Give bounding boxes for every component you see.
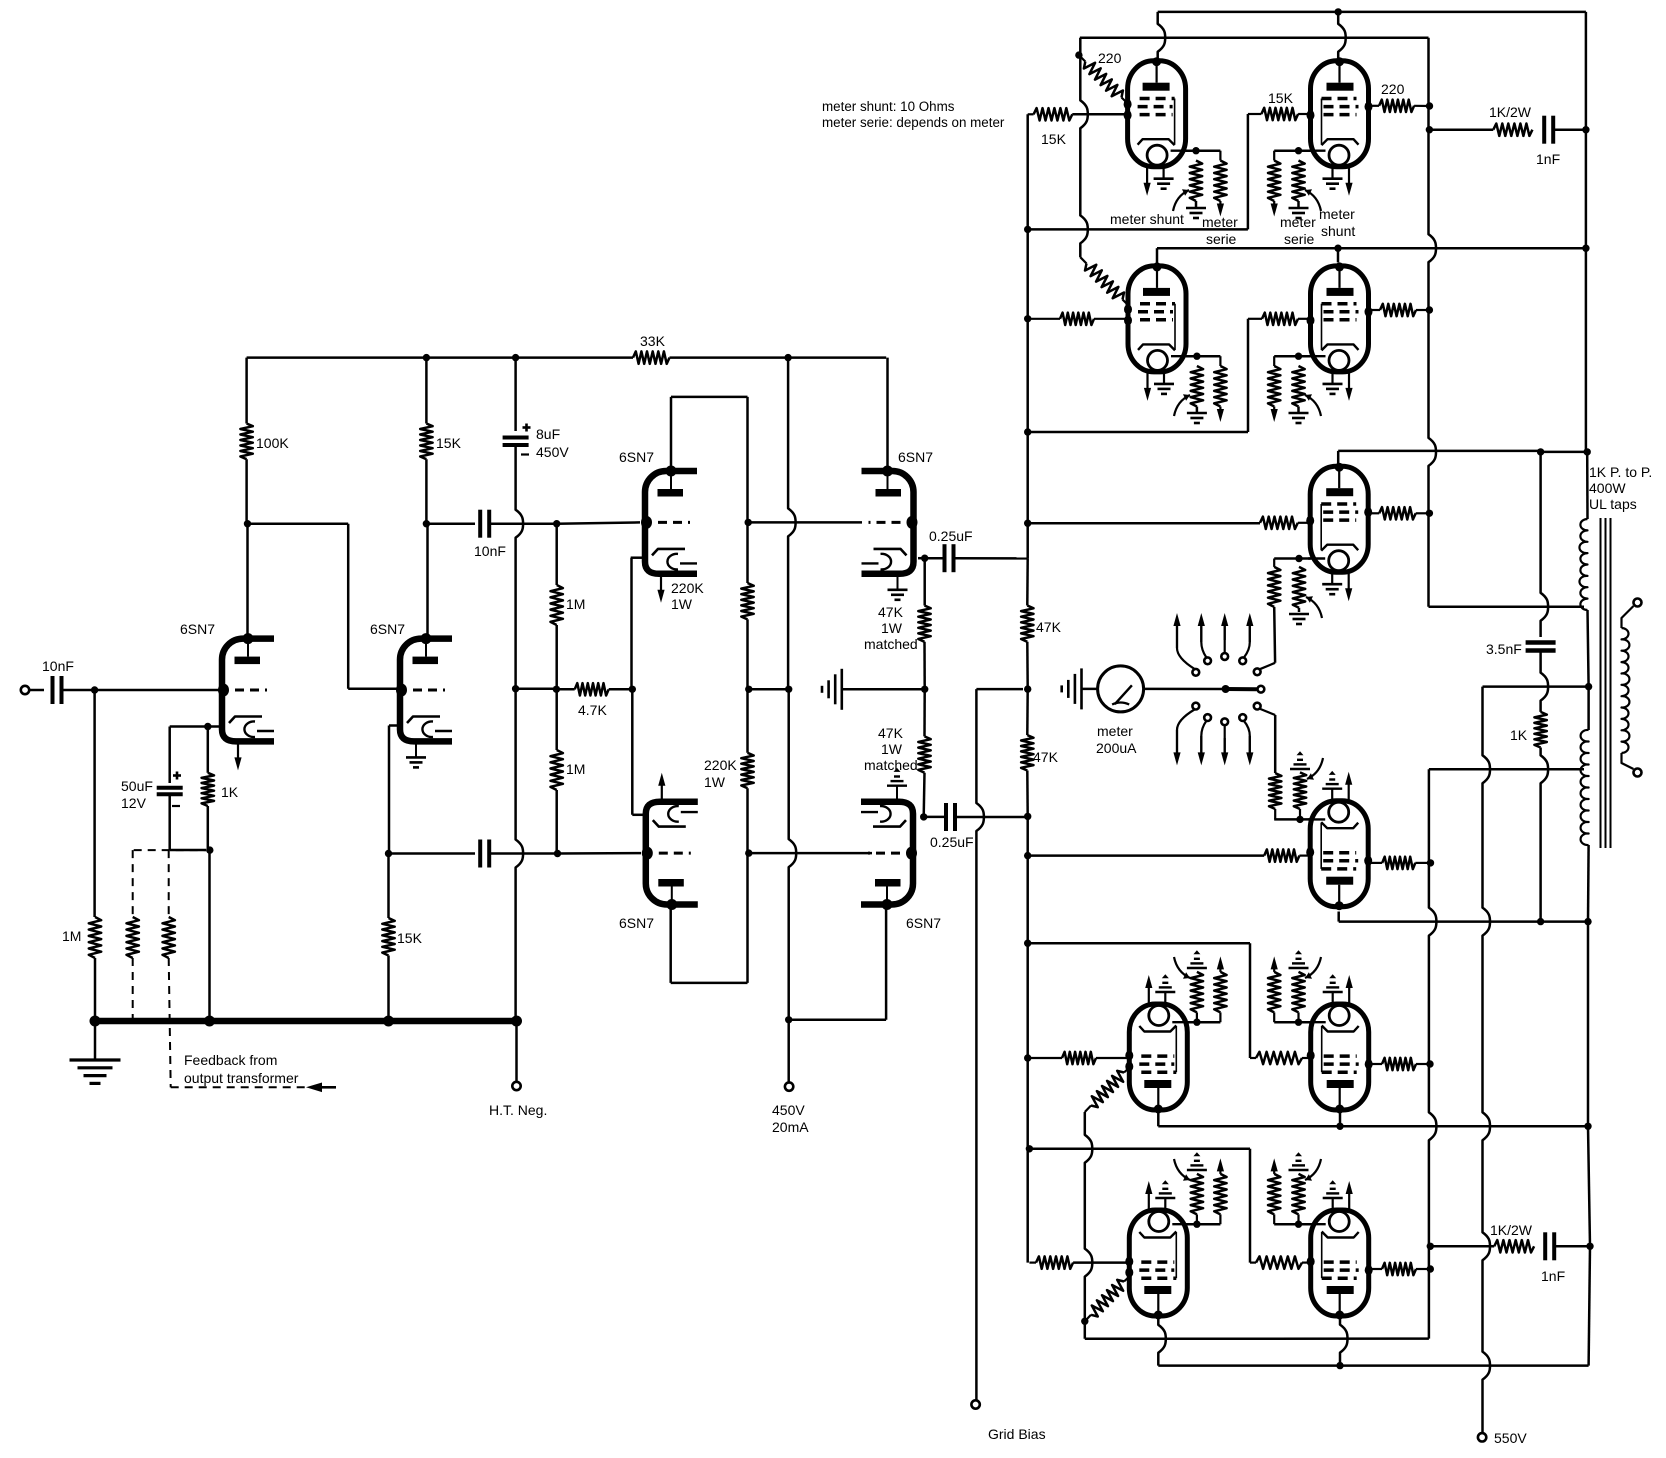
resistor R57 meter shunt V16	[1292, 1174, 1304, 1215]
resistor R32 meter serie V10	[1268, 366, 1280, 407]
node lower drive top	[1024, 813, 1031, 820]
wire V8 cathode out	[1274, 149, 1293, 152]
resistor R38 grid V12	[1264, 849, 1299, 861]
wire R17 leads	[1026, 689, 1029, 735]
earth reference (sideways ground)	[840, 669, 843, 710]
wire R6 leads	[387, 854, 390, 919]
switch lead d3	[1224, 725, 1226, 753]
switch lead d1	[1177, 710, 1195, 754]
wire primary mid	[1588, 610, 1589, 687]
switch contact u3	[1221, 653, 1228, 660]
wire V10 cathode out	[1274, 355, 1310, 358]
wire V1 plate riser	[246, 524, 249, 637]
svg-text:1M: 1M	[566, 596, 585, 612]
node drive row6b	[1026, 1145, 1033, 1152]
capacitor C4 10nF interstage	[478, 510, 482, 538]
node zobel bottom junction	[1537, 918, 1544, 925]
transformer T1 primary upper coil	[1579, 519, 1587, 610]
node primary top junction	[1584, 448, 1591, 455]
node rail B' / zobel2	[1427, 1243, 1434, 1250]
node line1 / V8 riser	[1335, 8, 1342, 15]
wire secondary top lead	[1622, 606, 1634, 628]
node B+ / R7	[423, 354, 430, 361]
wire zobel2 from rail B2 (hop 550V riser)	[1430, 1245, 1494, 1248]
svg-text:meter: meter	[1202, 214, 1238, 230]
wire R2 top lead	[207, 727, 210, 773]
tube V13 output (row5 left)	[1129, 1004, 1187, 1110]
wire lower drive rail	[1026, 816, 1029, 1262]
wire V12 cathode out	[1274, 818, 1310, 821]
node zobel top junction	[1537, 448, 1544, 455]
rotary switch S1 pivot	[1222, 685, 1230, 693]
dashed feedback line to output	[171, 1086, 336, 1088]
svg-text:15K: 15K	[397, 930, 423, 946]
wire cathode tie down to V5	[631, 689, 634, 815]
resistor R24 meter serie V8	[1268, 161, 1280, 202]
pot arrow meter shunt V9	[1174, 395, 1190, 416]
node bus left	[90, 1016, 101, 1027]
tube V16 output (row6 right)	[1311, 1210, 1369, 1316]
switch contact d1	[1192, 703, 1199, 710]
terminal H.T. Neg.	[512, 1082, 520, 1090]
resistor R33 meter shunt V10	[1292, 366, 1304, 407]
node V12 cathode / shunt	[1296, 816, 1303, 823]
wire R11 leads	[555, 689, 558, 750]
node chain / upper grid wire	[745, 519, 752, 526]
node primary V12 junction	[1584, 918, 1591, 925]
svg-text:H.T. Neg.: H.T. Neg.	[489, 1102, 547, 1118]
inverted ground meter shunt V16	[1289, 1169, 1309, 1171]
resistor R3 100K plate load V1	[240, 424, 252, 460]
capacitor C6 0.25uF upper coupling	[943, 544, 947, 572]
wire row5 plates	[1157, 1110, 1160, 1126]
tube V5 6SN7 splitter lower-left	[646, 802, 698, 905]
svg-text:47K: 47K	[1036, 619, 1062, 635]
wire zobel3 top	[1541, 452, 1549, 637]
wire V2 plate riser	[426, 524, 429, 637]
svg-text:Feedback from: Feedback from	[184, 1052, 277, 1068]
resistor R19 15K grid V7	[1034, 108, 1073, 120]
wire R30 to ground	[1196, 407, 1199, 413]
arrow meter serie V8 (to switch)	[1273, 201, 1275, 206]
wire zobel1 to plate line	[1553, 128, 1586, 131]
pot arrow meter shunt V14	[1305, 957, 1321, 978]
wire long riser lower half	[789, 689, 797, 1020]
switch lead d4	[1244, 721, 1250, 753]
ground meter shunt V11	[1289, 613, 1309, 616]
node rail B' / 220 V12	[1427, 859, 1434, 866]
wire lower grid wire to V6 (hop)	[749, 852, 872, 855]
node drive row5b	[1024, 940, 1031, 947]
wire V9 cathode out	[1186, 355, 1220, 358]
resistor R10 4.7K tail	[575, 683, 609, 695]
wire HT terminal lead	[515, 1024, 518, 1082]
node grid chain top	[553, 520, 560, 527]
pot arrow meter shunt V7	[1173, 190, 1189, 211]
svg-text:1W: 1W	[671, 596, 693, 612]
svg-text:6SN7: 6SN7	[619, 915, 654, 931]
polarity - mark C3	[521, 453, 529, 455]
resistor R43 grid V13	[1062, 1052, 1096, 1064]
resistor R27 grid V9	[1060, 313, 1094, 325]
wire V4 plate riser	[886, 358, 889, 471]
node cathode tie V3/V5	[629, 686, 636, 693]
resistor R36 meter shunt V11	[1293, 567, 1305, 608]
wire V10 plate riser	[1337, 248, 1340, 262]
resistor R2 1K cathode	[202, 773, 214, 806]
pot arrow meter shunt V16	[1305, 1159, 1321, 1180]
wire HT node to 4.7K node	[516, 687, 557, 690]
node rail B / 220 V11	[1426, 510, 1433, 517]
arrow meter serie V7 (to switch)	[1219, 201, 1221, 206]
node rail B / 220 V10	[1426, 306, 1433, 313]
wire C2 to junction	[168, 795, 171, 850]
wire 450V terminal lead	[787, 1020, 790, 1082]
input terminal	[21, 686, 29, 694]
switch lead d5 (to V12 serie)	[1260, 709, 1276, 715]
resistor R58 1K/2W upper	[1493, 124, 1532, 136]
wire V15 cathode out	[1187, 1223, 1221, 1226]
node lower grid junction	[554, 850, 561, 857]
node bus 15K	[383, 1016, 394, 1027]
wire UL tap upper (from rail B)	[1429, 606, 1585, 609]
transformer T1 secondary coil	[1622, 628, 1630, 753]
node V1 plate/coupling junction	[244, 520, 251, 527]
node grid bias mid	[1024, 685, 1031, 692]
wire R15 leads	[923, 689, 926, 736]
resistor R22 meter shunt V7	[1190, 161, 1202, 202]
svg-text:220: 220	[1098, 50, 1122, 66]
pot arrow meter shunt V11	[1306, 597, 1322, 618]
svg-text:10nF: 10nF	[474, 543, 506, 559]
svg-text:1K: 1K	[1510, 727, 1528, 743]
svg-text:50uF: 50uF	[121, 778, 153, 794]
svg-text:100K: 100K	[256, 435, 289, 451]
node V11 cathode / shunt	[1295, 555, 1302, 562]
wire V1 plate to V2 grid	[248, 522, 349, 525]
resistor R60 1K	[1534, 712, 1546, 748]
resistor R50 220 screen V15 (diagonal)	[1091, 1280, 1124, 1317]
wire drive to grid R row4	[1028, 854, 1265, 857]
node V2 cathode/C4 junction	[385, 850, 392, 857]
capacitor C9 1nF lower	[1543, 1232, 1547, 1260]
node V7 cathode / shunt	[1192, 147, 1199, 154]
polarity + mark C2	[173, 774, 181, 777]
resistor R14 47K 1W matched upper	[918, 606, 930, 642]
node V10 cathode / shunt	[1295, 353, 1302, 360]
wire R36 to ground	[1298, 608, 1301, 612]
wire R41 to switch contact	[1274, 715, 1277, 773]
svg-text:6SN7: 6SN7	[906, 915, 941, 931]
dashed lead feedback R4	[132, 850, 134, 917]
wire R7 to B+ rail	[425, 358, 428, 424]
svg-text:serie: serie	[1284, 231, 1315, 247]
arrow meter serie V10	[1273, 407, 1275, 412]
dashed feedback tie line	[134, 849, 206, 851]
node rail A' / 220 V15	[1081, 1318, 1088, 1325]
node drive/15K row1	[1024, 226, 1031, 233]
wire chain lower segment	[746, 788, 749, 983]
svg-text:matched: matched	[864, 757, 918, 773]
tube V9 output (row2 left)	[1128, 266, 1186, 372]
inverted ground meter shunt V13	[1187, 967, 1207, 969]
wire earth to meter	[1082, 688, 1099, 691]
wire drive to riser row5 (y=943)	[1028, 942, 1250, 945]
node drive row5	[1024, 1054, 1031, 1061]
wire earth to bias node	[842, 688, 925, 691]
svg-text:1nF: 1nF	[1541, 1268, 1565, 1284]
wire 550V riser	[1483, 687, 1491, 1433]
wire row6 plates	[1158, 1316, 1166, 1366]
resistor R41 meter serie V12	[1269, 773, 1281, 809]
node V2 plate junction	[423, 520, 430, 527]
switch contact d5	[1254, 703, 1261, 710]
wire V14 plate riser	[1339, 1110, 1342, 1126]
resistor R28 grid V10	[1262, 313, 1298, 325]
wire V2 cathode node to C5	[389, 852, 476, 855]
node rail B' / 220 V16	[1427, 1265, 1434, 1272]
svg-text:450V: 450V	[536, 444, 569, 460]
switch contact d3	[1221, 718, 1228, 725]
resistor R37 meter serie V11	[1268, 567, 1280, 607]
ground chassis (main)	[70, 1058, 121, 1061]
meter M1 200uA (movement)	[1098, 666, 1144, 712]
wire 220K chain upper segment	[746, 397, 749, 583]
svg-text:6SN7: 6SN7	[180, 621, 215, 637]
resistor R11 1M grid lower	[551, 750, 563, 790]
switch lead u4	[1244, 625, 1250, 657]
svg-text:serie: serie	[1206, 231, 1237, 247]
node drive row2	[1024, 315, 1031, 322]
node B+ rail / HT line	[512, 354, 519, 361]
wire chain mid segment	[746, 619, 749, 752]
tube V7 output (row1 left)	[1128, 61, 1186, 167]
wire B+ rail right segment	[670, 356, 887, 359]
node V9 cathode / shunt	[1193, 353, 1200, 360]
tube V11 output (row3)	[1310, 466, 1368, 572]
wire V13 cathode out	[1187, 1021, 1221, 1024]
svg-text:meter: meter	[1280, 214, 1316, 230]
resistor R59 1K/2W lower	[1494, 1240, 1534, 1252]
svg-text:meter shunt: meter shunt	[1110, 211, 1184, 227]
svg-text:meter: meter	[1097, 723, 1133, 739]
node riser / 450V tap	[785, 1016, 792, 1023]
node V15 cathode / shunt	[1193, 1221, 1200, 1228]
wire V8 cathode stub	[1294, 149, 1311, 152]
switch contact u1	[1192, 669, 1199, 676]
wire bias node to drive rail	[976, 688, 1023, 691]
wire long riser (33K junction down)	[788, 358, 796, 690]
node V8 cathode / shunt	[1295, 147, 1302, 154]
node plate line / line3	[1582, 245, 1589, 252]
resistor R13 220K 1W lower	[741, 753, 753, 788]
node grid chain mid	[553, 686, 560, 693]
node chain / lower grid wire	[745, 849, 752, 856]
wire V7 plate riser (hop line2)	[1158, 12, 1166, 58]
transformer T1 core	[1600, 518, 1602, 848]
svg-text:33K: 33K	[640, 333, 666, 349]
tube V2 6SN7 section B	[400, 639, 452, 742]
svg-text:450V: 450V	[772, 1102, 805, 1118]
svg-text:output transformer: output transformer	[184, 1070, 299, 1086]
resistor R9 1M grid upper	[551, 585, 563, 625]
svg-text:1W: 1W	[881, 741, 903, 757]
arrow meter serie V15 (to switch)	[1219, 1169, 1221, 1174]
terminal Grid Bias	[971, 1400, 979, 1408]
resistor R53 220 screen V16	[1382, 1263, 1416, 1275]
node input grid junction	[91, 686, 98, 693]
tube V4 6SN7 splitter upper-right	[862, 471, 914, 574]
wire R60 down to plate-side wire	[1541, 748, 1549, 918]
switch contact u2	[1204, 657, 1211, 664]
wire grid-bias riser	[976, 689, 984, 1400]
wire V14 cathode out	[1274, 1021, 1310, 1024]
wire drive to riser row6 (hop rail A2)	[1029, 1148, 1250, 1151]
arrowhead feedback (points left)	[306, 1083, 322, 1093]
rotary switch S1 arm	[1226, 687, 1257, 691]
wire screens rail A' lower	[1085, 1112, 1093, 1339]
svg-text:47K: 47K	[878, 725, 904, 741]
ground meter shunt V7	[1186, 207, 1206, 210]
svg-text:1M: 1M	[566, 761, 585, 777]
wire drive to riser row2 (y=432)	[1028, 431, 1248, 434]
transformer T1 primary lower coil	[1581, 730, 1589, 845]
pot arrow meter shunt V8	[1305, 190, 1321, 211]
wire riser row2	[1247, 319, 1250, 432]
node B+ rail / long riser	[784, 354, 791, 361]
node bus HT	[511, 1016, 522, 1027]
svg-text:meter shunt: 10 Ohms: meter shunt: 10 Ohms	[822, 99, 955, 114]
node primary center tap	[1585, 683, 1592, 690]
svg-text:4.7K: 4.7K	[578, 702, 607, 718]
dashed lead R5 down	[169, 958, 171, 1087]
wire center tap to 550V riser	[1483, 685, 1589, 688]
wire R51 to V15 (hop rail A2)	[1073, 1261, 1129, 1264]
switch pole contact	[1258, 686, 1265, 693]
node V16 cathode / shunt	[1295, 1221, 1302, 1228]
pot arrow meter shunt V12	[1307, 758, 1323, 779]
wire bus to chassis ground	[94, 1024, 97, 1059]
pot arrow meter shunt V10	[1305, 395, 1321, 416]
dashed lead feedback R5	[168, 850, 170, 917]
resistor R39 220 screen V12	[1382, 857, 1415, 869]
switch contact d2	[1204, 714, 1211, 721]
switch contact u4	[1239, 657, 1246, 664]
node V1 cathode junction	[204, 723, 211, 730]
ground meter shunt V8	[1289, 207, 1309, 210]
svg-text:6SN7: 6SN7	[370, 621, 405, 637]
svg-text:550V: 550V	[1494, 1430, 1527, 1446]
svg-text:1W: 1W	[704, 774, 726, 790]
resistor R49 meter shunt V14	[1292, 972, 1304, 1013]
switch lead u5 (to V11 serie)	[1260, 663, 1276, 670]
wire HT line down	[516, 445, 524, 1018]
wire screens rail B upper	[1429, 38, 1437, 607]
wire C5 to lower grid (hop)	[490, 852, 561, 855]
wire screens link bottom (line2')	[1085, 1337, 1429, 1340]
pot arrow meter shunt V13	[1174, 957, 1190, 978]
tube V3 6SN7 splitter upper-left	[645, 471, 697, 574]
wire R37 to switch contact	[1273, 607, 1276, 663]
svg-text:15K: 15K	[1268, 90, 1294, 106]
wire R14 to bias node	[923, 642, 926, 690]
resistor R1 1M input	[89, 917, 101, 958]
svg-text:15K: 15K	[1041, 131, 1067, 147]
node plate line / zobel2	[1586, 1243, 1593, 1250]
svg-text:meter serie: depends on meter: meter serie: depends on meter	[822, 115, 1005, 130]
arrow meter serie V14 (to switch)	[1273, 967, 1275, 972]
wire B+ rail left segment	[247, 356, 633, 359]
wire bias node down to C2	[168, 727, 171, 784]
pot arrow meter shunt V15	[1174, 1159, 1190, 1180]
wire R33 to ground	[1297, 407, 1300, 413]
resistor R55 meter serie V15	[1214, 1174, 1226, 1215]
resistor R6 15K cathode V2	[382, 918, 394, 956]
wire 450V tap to V6 plate	[789, 1019, 886, 1022]
resistor R42 220 screen V13 (diagonal)	[1091, 1071, 1124, 1107]
resistor R30 meter shunt V9	[1191, 366, 1203, 407]
resistor R17 47K grid-leak lower	[1021, 735, 1033, 770]
tube V1 6SN7 section A	[222, 639, 274, 742]
node V13 cathode / shunt	[1193, 1019, 1200, 1026]
node row5 plates / V14 riser	[1336, 1123, 1343, 1130]
capacitor C8 1nF upper	[1542, 116, 1546, 144]
wire V11 cathode out	[1274, 557, 1310, 560]
wire V2 plate to C4a	[426, 522, 475, 525]
polarity + mark C3	[523, 426, 531, 429]
node long riser / bias link	[785, 686, 792, 693]
terminal 550V	[1478, 1433, 1486, 1441]
resistor R34 grid V11	[1260, 517, 1298, 529]
wire cathode tie up to V3	[630, 558, 633, 690]
resistor R4 feedback	[127, 917, 139, 958]
wire R2 bottom to bus	[207, 806, 210, 850]
node HT line / cathode return	[512, 685, 519, 692]
wire screens rail A	[1080, 38, 1088, 257]
resistor R52 15K grid V16	[1256, 1256, 1302, 1268]
node R2/C2 junction	[206, 846, 213, 853]
switch contact d4	[1239, 714, 1246, 721]
resistor R20 15K grid V8	[1261, 108, 1298, 120]
node row6 plates / V16 riser	[1336, 1362, 1343, 1369]
svg-text:UL taps: UL taps	[1589, 496, 1637, 512]
svg-text:8uF: 8uF	[536, 426, 560, 442]
wire V8 plate riser (hop line2)	[1338, 12, 1346, 58]
resistor R23 meter serie V7	[1214, 161, 1226, 202]
tube V8 output (row1 right)	[1311, 61, 1369, 167]
node drive row3	[1024, 520, 1031, 527]
inverted ground meter shunt V14	[1289, 967, 1309, 969]
wire drive to riser row1 (hop rail A)	[1028, 228, 1248, 231]
wire 4.7K leads	[556, 688, 574, 691]
resistor R15 47K 1W matched lower	[918, 736, 930, 772]
svg-text:20mA: 20mA	[772, 1119, 809, 1135]
switch contact u5	[1254, 668, 1261, 675]
wire input to coupling cap	[30, 689, 45, 692]
resistor R7 15K plate load V2	[420, 424, 432, 460]
svg-text:400W: 400W	[1589, 480, 1626, 496]
node upper drive / V4 cathode	[921, 555, 928, 562]
wire plates link row2 (line3)	[1157, 247, 1586, 250]
arrow meter serie V13 (to switch)	[1219, 967, 1221, 972]
svg-text:1nF: 1nF	[1536, 151, 1560, 167]
svg-text:3.5nF: 3.5nF	[1486, 641, 1522, 657]
resistor R40 meter shunt V12	[1294, 772, 1306, 809]
resistor R8 33K feedback/B+	[633, 351, 670, 363]
wire meter to switch pivot	[1144, 688, 1226, 691]
resistor R18 220 screen V7 (diagonal)	[1084, 62, 1123, 98]
resistor R47 meter serie V13	[1214, 972, 1226, 1013]
